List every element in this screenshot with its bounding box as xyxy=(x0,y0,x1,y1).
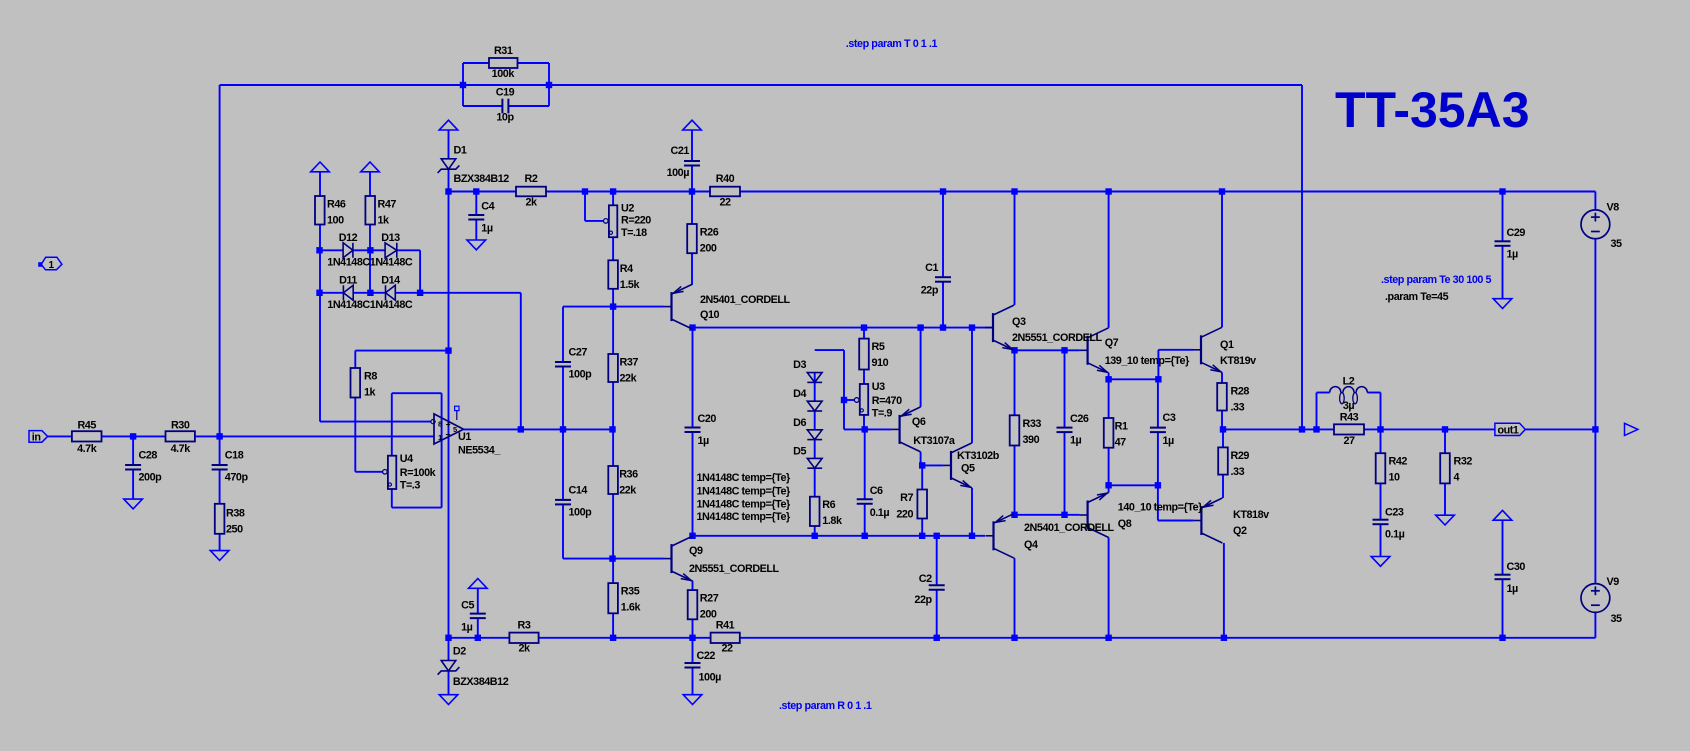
svg-text:R29: R29 xyxy=(1231,450,1250,462)
svg-text:C6: C6 xyxy=(870,485,883,497)
svg-text:1N4148C temp={Te}: 1N4148C temp={Te} xyxy=(697,486,792,498)
svg-text:R47: R47 xyxy=(378,199,397,211)
svg-text:Q5: Q5 xyxy=(961,463,975,475)
svg-text:R6: R6 xyxy=(822,499,835,511)
svg-text:250: 250 xyxy=(226,524,243,536)
svg-text:D13: D13 xyxy=(381,232,400,244)
svg-text:C27: C27 xyxy=(569,347,588,359)
svg-text:22p: 22p xyxy=(921,284,939,296)
svg-text:KT819v: KT819v xyxy=(1220,355,1256,367)
svg-text:47: 47 xyxy=(1115,437,1127,449)
svg-text:100µ: 100µ xyxy=(699,672,722,684)
svg-text:10p: 10p xyxy=(496,111,514,123)
svg-text:1µ: 1µ xyxy=(698,435,710,447)
svg-text:TT-35A3: TT-35A3 xyxy=(1335,82,1530,138)
svg-text:4.7k: 4.7k xyxy=(77,443,98,455)
svg-text:−: − xyxy=(446,429,451,439)
svg-text:100: 100 xyxy=(327,215,344,227)
svg-text:1N4148C temp={Te}: 1N4148C temp={Te} xyxy=(697,499,792,511)
svg-text:U4: U4 xyxy=(400,453,413,465)
svg-text:R35: R35 xyxy=(621,586,640,598)
svg-text:R46: R46 xyxy=(327,199,346,211)
svg-text:1: 1 xyxy=(438,433,442,442)
svg-text:27: 27 xyxy=(1343,435,1355,447)
svg-text:C14: C14 xyxy=(569,484,588,496)
svg-text:D12: D12 xyxy=(339,232,358,244)
svg-text:R=100k: R=100k xyxy=(400,467,437,479)
svg-text:T=.3: T=.3 xyxy=(400,479,421,491)
svg-text:1µ: 1µ xyxy=(1070,434,1082,446)
svg-text:R1: R1 xyxy=(1115,421,1128,433)
svg-text:R28: R28 xyxy=(1231,386,1250,398)
svg-text:R7: R7 xyxy=(900,492,913,504)
svg-text:4.7k: 4.7k xyxy=(171,443,192,455)
svg-text:1k: 1k xyxy=(364,387,377,399)
svg-text:R33: R33 xyxy=(1023,418,1042,430)
svg-text:BZX384B12: BZX384B12 xyxy=(454,173,510,185)
svg-text:1N4148C: 1N4148C xyxy=(327,256,370,268)
svg-text:NE5534_: NE5534_ xyxy=(458,444,501,456)
svg-text:.step param Te 30 100 5: .step param Te 30 100 5 xyxy=(1381,274,1492,286)
svg-text:2N5401_CORDELL: 2N5401_CORDELL xyxy=(1024,522,1115,534)
svg-text:D1: D1 xyxy=(454,144,467,156)
svg-text:Q2: Q2 xyxy=(1233,525,1247,537)
svg-text:R43: R43 xyxy=(1340,412,1359,424)
svg-text:.param Te=45: .param Te=45 xyxy=(1385,291,1449,303)
svg-text:C2: C2 xyxy=(919,573,932,585)
svg-text:22k: 22k xyxy=(620,373,638,385)
svg-text:100k: 100k xyxy=(492,68,516,80)
svg-text:.33: .33 xyxy=(1231,402,1245,414)
svg-text:140_10 temp={Te}: 140_10 temp={Te} xyxy=(1118,501,1203,513)
svg-text:D11: D11 xyxy=(339,275,357,287)
svg-text:R5: R5 xyxy=(872,341,885,353)
svg-text:1µ: 1µ xyxy=(1507,583,1519,595)
svg-text:R42: R42 xyxy=(1389,456,1408,468)
svg-text:KT818v: KT818v xyxy=(1233,509,1269,521)
svg-text:C26: C26 xyxy=(1070,413,1089,425)
svg-text:+: + xyxy=(446,419,451,429)
svg-text:0.1µ: 0.1µ xyxy=(1385,529,1405,541)
svg-text:1N4148C: 1N4148C xyxy=(327,299,370,311)
svg-text:100p: 100p xyxy=(569,506,593,518)
svg-text:in: in xyxy=(32,432,41,444)
svg-text:Q7: Q7 xyxy=(1105,337,1119,349)
svg-text:.step param R 0 1 .1: .step param R 0 1 .1 xyxy=(779,700,872,712)
svg-text:BZX384B12: BZX384B12 xyxy=(453,676,509,688)
svg-text:1.6k: 1.6k xyxy=(621,602,642,614)
svg-text:C5: C5 xyxy=(461,599,474,611)
svg-text:KT3102b: KT3102b xyxy=(957,450,1000,462)
svg-text:C20: C20 xyxy=(698,413,717,425)
svg-text:2k: 2k xyxy=(518,643,531,655)
svg-text:KT3107a: KT3107a xyxy=(913,435,956,447)
svg-text:35: 35 xyxy=(1611,238,1623,250)
svg-text:1N4148C: 1N4148C xyxy=(370,256,413,268)
svg-text:22p: 22p xyxy=(914,594,932,606)
svg-text:R27: R27 xyxy=(700,593,719,605)
svg-text:R38: R38 xyxy=(226,508,245,520)
svg-text:2k: 2k xyxy=(525,196,538,208)
svg-text:R41: R41 xyxy=(716,620,735,632)
svg-text:1: 1 xyxy=(48,260,54,271)
svg-text:139_10 temp={Te}: 139_10 temp={Te} xyxy=(1105,355,1190,367)
svg-text:L2: L2 xyxy=(1343,376,1355,388)
svg-text:D14: D14 xyxy=(381,275,400,287)
svg-text:100p: 100p xyxy=(569,369,593,381)
svg-text:C18: C18 xyxy=(225,449,244,461)
svg-text:R30: R30 xyxy=(171,420,190,432)
svg-text:1N4148C: 1N4148C xyxy=(370,299,413,311)
svg-text:R8: R8 xyxy=(364,371,377,383)
svg-text:Q9: Q9 xyxy=(689,545,703,557)
svg-text:1µ: 1µ xyxy=(461,622,473,634)
svg-text:22k: 22k xyxy=(619,485,637,497)
svg-text:35: 35 xyxy=(1611,613,1623,625)
svg-text:Q6: Q6 xyxy=(912,416,926,428)
svg-text:5: 5 xyxy=(453,425,457,434)
svg-text:200: 200 xyxy=(700,609,717,621)
svg-text:910: 910 xyxy=(872,357,889,369)
svg-text:Q1: Q1 xyxy=(1220,339,1234,351)
svg-text:C21: C21 xyxy=(671,145,690,157)
svg-text:.step param T 0 1 .1: .step param T 0 1 .1 xyxy=(846,38,938,50)
svg-text:R45: R45 xyxy=(77,420,96,432)
svg-text:C23: C23 xyxy=(1385,507,1404,519)
svg-text:C3: C3 xyxy=(1163,412,1176,424)
svg-text:Q3: Q3 xyxy=(1012,316,1026,328)
svg-text:R31: R31 xyxy=(494,45,513,57)
svg-text:.33: .33 xyxy=(1231,466,1245,478)
svg-text:D2: D2 xyxy=(453,646,466,658)
svg-text:R3: R3 xyxy=(518,620,531,632)
svg-text:U2: U2 xyxy=(621,202,634,214)
svg-text:R2: R2 xyxy=(525,173,538,185)
svg-text:Q8: Q8 xyxy=(1118,518,1132,530)
svg-text:R37: R37 xyxy=(620,357,639,369)
svg-text:1N4148C temp={Te}: 1N4148C temp={Te} xyxy=(697,511,792,523)
svg-text:V9: V9 xyxy=(1607,576,1620,588)
svg-text:R26: R26 xyxy=(700,227,719,239)
svg-text:200: 200 xyxy=(700,243,717,255)
svg-text:C1: C1 xyxy=(925,262,938,274)
svg-text:D3: D3 xyxy=(793,359,806,371)
svg-text:8: 8 xyxy=(438,419,442,428)
svg-text:R=470: R=470 xyxy=(872,395,902,407)
svg-text:390: 390 xyxy=(1023,434,1040,446)
svg-text:1.5k: 1.5k xyxy=(620,279,641,291)
svg-text:2N5401_CORDELL: 2N5401_CORDELL xyxy=(700,294,791,306)
svg-text:1k: 1k xyxy=(378,215,391,227)
svg-text:1µ: 1µ xyxy=(1507,249,1519,261)
svg-text:2N5551_CORDELL: 2N5551_CORDELL xyxy=(1012,332,1103,344)
svg-text:1N4148C temp={Te}: 1N4148C temp={Te} xyxy=(697,472,792,484)
svg-text:U3: U3 xyxy=(872,381,885,393)
svg-text:D6: D6 xyxy=(793,417,806,429)
svg-text:22: 22 xyxy=(719,196,731,208)
svg-text:T=.18: T=.18 xyxy=(621,227,647,239)
svg-text:22: 22 xyxy=(721,643,733,655)
svg-text:D5: D5 xyxy=(793,446,806,458)
svg-text:C28: C28 xyxy=(139,449,158,461)
svg-text:100µ: 100µ xyxy=(667,167,690,179)
svg-text:T=.9: T=.9 xyxy=(872,408,893,420)
svg-text:R=220: R=220 xyxy=(621,215,651,227)
svg-text:out1: out1 xyxy=(1498,425,1519,437)
svg-text:R36: R36 xyxy=(619,469,638,481)
svg-text:R40: R40 xyxy=(716,173,735,185)
svg-text:V8: V8 xyxy=(1607,202,1620,214)
svg-text:Q4: Q4 xyxy=(1024,539,1038,551)
svg-text:1µ: 1µ xyxy=(481,222,493,234)
svg-text:R4: R4 xyxy=(620,263,633,275)
svg-text:C29: C29 xyxy=(1507,227,1526,239)
svg-text:D4: D4 xyxy=(793,388,806,400)
svg-text:2N5551_CORDELL: 2N5551_CORDELL xyxy=(689,563,780,575)
svg-text:U1: U1 xyxy=(458,431,471,443)
svg-text:220: 220 xyxy=(896,509,913,521)
svg-text:470p: 470p xyxy=(225,471,249,483)
svg-text:C30: C30 xyxy=(1507,561,1526,573)
svg-text:200p: 200p xyxy=(139,471,163,483)
svg-text:C4: C4 xyxy=(481,201,494,213)
svg-text:C22: C22 xyxy=(697,650,716,662)
svg-text:Q10: Q10 xyxy=(700,309,720,321)
svg-text:R32: R32 xyxy=(1454,456,1473,468)
svg-text:1.8k: 1.8k xyxy=(822,515,843,527)
svg-text:C19: C19 xyxy=(496,86,515,98)
svg-text:10: 10 xyxy=(1389,472,1401,484)
svg-text:4: 4 xyxy=(1454,472,1460,484)
svg-text:1µ: 1µ xyxy=(1163,435,1175,447)
svg-text:3µ: 3µ xyxy=(1343,400,1355,412)
svg-text:0.1µ: 0.1µ xyxy=(870,507,890,519)
